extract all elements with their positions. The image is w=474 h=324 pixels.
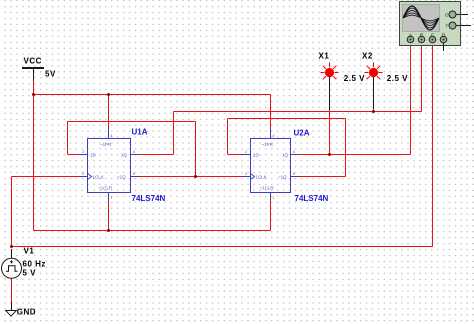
pin stub 1D (243, 154, 251, 156)
wire X2 lamp drop to 1Q bus (373, 109, 375, 112)
svg-text:GND: GND (17, 308, 36, 317)
svg-text:6: 6 (293, 172, 295, 176)
svg-text:T: T (446, 24, 449, 29)
node V1 top junction (10, 245, 13, 248)
node VCC at U1A preset (107, 93, 110, 96)
flip-flop U1A 74LS74N (80, 128, 166, 204)
svg-text:1CLK: 1CLK (93, 175, 104, 180)
svg-text:X1: X1 (319, 52, 330, 61)
wire U2A notQ out y=176.5 (299, 176, 346, 178)
node clear bus at U1A (107, 229, 110, 232)
svg-text:4: 4 (273, 134, 275, 138)
wire U1A clear pin drop (108, 200, 110, 231)
svg-text:U1A: U1A (132, 128, 148, 137)
flip-flop U2A 74LS74N (243, 129, 329, 204)
clock source V1 60 Hz 5 V (2, 247, 46, 311)
svg-text:~1Q: ~1Q (117, 175, 126, 180)
wire U1A feedback horizontal y=121.5 (68, 121, 196, 123)
wire U1A feedback down x=67.5 (67, 122, 69, 155)
svg-text:X2: X2 (362, 52, 373, 61)
svg-text:~1Q: ~1Q (278, 175, 287, 180)
svg-text:2: 2 (82, 150, 84, 154)
svg-text:1Q: 1Q (121, 153, 128, 158)
wire scope terminal B drop x=421.5 (421, 43, 423, 112)
pin stub ~1Q (291, 176, 299, 178)
lamp X1 (319, 52, 366, 111)
svg-text:~1CLR: ~1CLR (98, 186, 113, 191)
svg-text:6: 6 (133, 172, 135, 176)
pin stub ~1PR (108, 129, 110, 139)
knob G (453, 14, 469, 16)
wire VCC to U2A preset pin (270, 95, 272, 130)
terminal D stub (443, 43, 445, 51)
wire U2A feedback to 1D pin (228, 154, 243, 156)
svg-text:~1CLR: ~1CLR (260, 186, 275, 191)
svg-text:~1PR: ~1PR (262, 142, 274, 147)
pin stub 1CLK (243, 176, 251, 178)
svg-text:~1PR: ~1PR (100, 142, 112, 147)
wire scope terminal C drop x=432.5 (432, 43, 434, 247)
wire U2A clear pin drop (270, 200, 272, 231)
svg-text:VCC: VCC (24, 57, 42, 66)
svg-text:5: 5 (293, 150, 295, 154)
svg-text:1D: 1D (253, 153, 260, 158)
svg-text:1: 1 (273, 196, 275, 200)
wire scope terminal A drop x=410.5 (410, 43, 412, 155)
pin stub ~1CLR (108, 193, 110, 201)
wire U1A feedback riser x=195.5 (195, 122, 197, 177)
ground (6, 308, 36, 317)
wire clear bus y=230.5 (34, 230, 271, 232)
knob T (453, 25, 472, 27)
wire VCC vertical drop x=33.5 (33, 80, 35, 231)
wire U2A 1Q to scope A y=154.5 (299, 154, 411, 156)
wire VCC to U1A preset pin (108, 95, 110, 130)
pin stub ~1PR (270, 129, 272, 139)
wire U1A feedback to 1D pin (68, 154, 80, 156)
svg-text:G: G (445, 13, 449, 18)
oscilloscope (4-channel) (400, 2, 472, 52)
svg-text:5 V: 5 V (23, 269, 37, 278)
wire U2A feedback horizontal y=118.5 (228, 118, 346, 120)
svg-text:60 Hz: 60 Hz (23, 260, 46, 269)
wire X1 lamp drop to U2A 1Q net (329, 110, 331, 155)
pin stub ~1CLR (270, 193, 272, 201)
svg-text:74LS74N: 74LS74N (132, 194, 166, 203)
wire V1 clock horizontal to U1A CLK (12, 176, 80, 178)
wire V1 clock vertical x=11.5 (11, 177, 13, 247)
wire U2A feedback riser x=345.5 (345, 119, 347, 177)
svg-text:V1: V1 (24, 247, 35, 256)
node X2 on 1Q bus (372, 110, 375, 113)
node VCC bus left junction (32, 93, 35, 96)
svg-text:4: 4 (111, 134, 113, 138)
svg-text:1: 1 (111, 196, 113, 200)
pin stub ~1Q (131, 176, 139, 178)
svg-text:2.5 V: 2.5 V (387, 74, 408, 83)
svg-text:2: 2 (245, 150, 247, 154)
node U1A notQ feedback junction (194, 175, 197, 178)
waveform (403, 6, 439, 30)
wire U1A 1Q to riser (139, 154, 174, 156)
pin stub 1Q (131, 154, 139, 156)
node X1 on U2A 1Q net (328, 153, 331, 156)
wire U1A 1Q bus y=111.5 to scope B (174, 111, 422, 113)
wire U1A notQ to U2A CLK y=176.5 (139, 176, 243, 178)
svg-text:74LS74N: 74LS74N (295, 194, 329, 203)
pin stub 1D (80, 154, 88, 156)
svg-text:1D: 1D (90, 153, 97, 158)
svg-text:5: 5 (133, 150, 135, 154)
wire U2A feedback down x=227.5 (227, 119, 229, 155)
svg-text:1CLK: 1CLK (256, 175, 267, 180)
svg-text:U2A: U2A (294, 129, 310, 138)
svg-text:3: 3 (82, 172, 84, 176)
svg-text:2.5 V: 2.5 V (344, 74, 365, 83)
pin stub 1Q (291, 154, 299, 156)
svg-text:5V: 5V (45, 70, 56, 79)
lamp X2 (362, 52, 408, 110)
wire bottom bus V1 to scope C y=246.5 (12, 246, 433, 248)
pin stub 1CLK (80, 176, 88, 178)
svg-text:1Q: 1Q (282, 153, 289, 158)
wire VCC horizontal bus y=94.5 (34, 94, 271, 96)
svg-text:3: 3 (245, 172, 247, 176)
power VCC 5V (22, 57, 56, 81)
wire U1A 1Q riser x=173.5 (173, 112, 175, 155)
